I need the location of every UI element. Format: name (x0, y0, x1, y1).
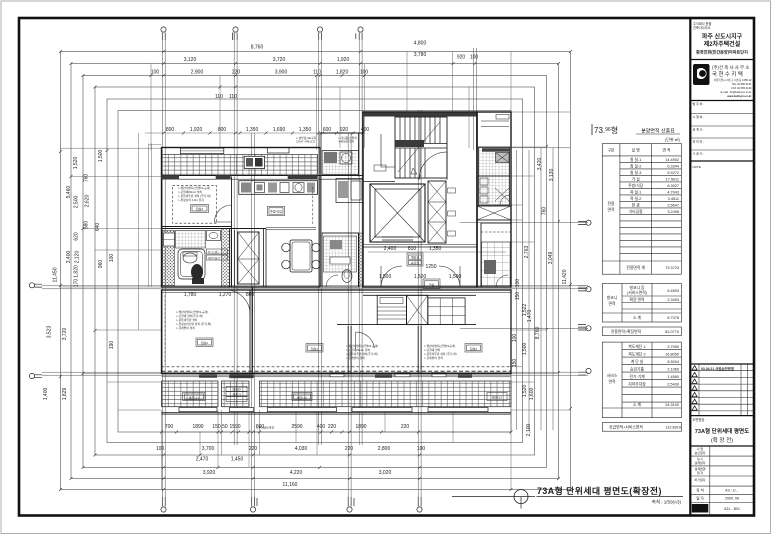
dashed vertical mid (312, 187, 314, 224)
svg-text:100: 100 (515, 279, 521, 288)
svg-text:03.04.21 사업승인변경: 03.04.21 사업승인변경 (701, 366, 734, 371)
svg-text:3,523: 3,523 (47, 326, 53, 339)
kitchen counter row (239, 181, 318, 195)
bottom rooms band (162, 290, 512, 374)
utility mid (336, 179, 363, 203)
svg-text:6.4593: 6.4593 (667, 289, 679, 293)
utility top right (322, 151, 359, 175)
svg-text:100: 100 (512, 334, 518, 343)
label bath (207, 249, 228, 260)
svg-text:승강기홀: 승강기홀 (630, 367, 644, 372)
label bedroom2 (196, 338, 213, 347)
svg-text:구분: 구분 (608, 148, 615, 153)
svg-text:축 척: 축 척 (696, 488, 704, 493)
stakeholder rows (690, 114, 754, 151)
svg-text:1890: 1890 (355, 424, 366, 430)
svg-text:11,420: 11,420 (562, 269, 568, 284)
bedroom3 dashed expansion (173, 186, 217, 224)
svg-text:서울특별시 서초구 서초동 1358-12: 서울특별시 서초구 서초동 1358-12 (714, 78, 752, 82)
svg-text:1,780: 1,780 (184, 292, 197, 298)
svg-text:220: 220 (345, 446, 354, 452)
svg-text:3,420: 3,420 (537, 158, 543, 171)
notes kitchen top (296, 136, 357, 144)
projection lines left block (149, 144, 162, 288)
svg-text:1890: 1890 (192, 424, 203, 430)
svg-text:(단위:㎡): (단위:㎡) (665, 136, 681, 142)
svg-text:기타공용: 기타공용 (629, 209, 643, 214)
svg-text:공급면적+서비스면적: 공급면적+서비스면적 (609, 425, 643, 430)
stair treads lower (400, 148, 425, 178)
grid line V1 (162, 40, 165, 497)
svg-text:620: 620 (74, 232, 80, 241)
bedroom walls vertical (250, 287, 253, 374)
svg-text:1250: 1250 (425, 264, 436, 270)
core corridor bottom wall (363, 246, 477, 248)
right wing bath lower (479, 176, 510, 205)
svg-text:주방/식당: 주방/식당 (628, 183, 644, 188)
svg-text:발코니3: 발코니3 (492, 395, 502, 400)
svg-text:760: 760 (84, 174, 90, 183)
svg-text:1.4560: 1.4560 (667, 375, 679, 379)
svg-text:100: 100 (360, 70, 369, 76)
stove box on counter (244, 156, 264, 168)
svg-text:침 실-2: 침 실-2 (630, 164, 641, 169)
corridor door arcs (381, 266, 402, 287)
svg-text:승강장: 승강장 (411, 260, 420, 265)
svg-text:파주 신도시지구: 파주 신도시지구 (702, 33, 743, 41)
svg-text:960: 960 (98, 260, 104, 269)
right extension lines (511, 112, 570, 410)
bedroom3 door arc (215, 205, 232, 222)
bubble bottom 2 (250, 497, 257, 512)
chain rect 3 (83, 76, 547, 468)
svg-text:8.5004: 8.5004 (667, 360, 679, 364)
table1 header text (594, 126, 681, 142)
svg-text:5,460: 5,460 (66, 186, 72, 199)
svg-text:3,900: 3,900 (275, 70, 288, 76)
svg-text:800: 800 (218, 127, 227, 133)
svg-text:분양면적 산출표: 분양면적 산출표 (641, 128, 675, 135)
svg-text:세면기설치: 세면기설치 (208, 256, 220, 260)
svg-text:2.5430: 2.5430 (667, 383, 679, 387)
entry door arc (419, 152, 447, 180)
svg-text:침실2: 침실2 (201, 340, 209, 345)
svg-text:2.3493: 2.3493 (667, 298, 679, 302)
svg-text:3,720: 3,720 (62, 328, 68, 341)
svg-text:1,350: 1,350 (246, 127, 259, 133)
svg-text:3,120: 3,120 (184, 57, 197, 63)
bottom extension lines (162, 410, 512, 489)
bubble right 1 (578, 220, 591, 225)
svg-text:1,270: 1,270 (219, 292, 232, 298)
svg-text:2,100: 2,100 (526, 424, 532, 437)
svg-text:11,450: 11,450 (53, 267, 59, 282)
stair treads upper (400, 117, 440, 143)
table3 (602, 342, 681, 431)
svg-text:욕 실-1: 욕 실-1 (630, 190, 641, 195)
stairs room (395, 117, 447, 178)
svg-text:100: 100 (156, 446, 165, 452)
svg-text:건축사사무소: 건축사사무소 (693, 25, 711, 30)
svg-text:소 계: 소 계 (633, 402, 642, 407)
right duct X (477, 206, 511, 220)
svg-text:3,720: 3,720 (273, 57, 286, 63)
label stair hall (407, 253, 423, 266)
stair landing (395, 144, 447, 149)
svg-text:17.5911: 17.5911 (666, 178, 679, 182)
grid line V5 (252, 133, 255, 497)
bubble top 4 (356, 27, 363, 40)
chain rect 5 (107, 99, 523, 443)
closet right (428, 298, 465, 325)
bottom wall above balcony (162, 373, 512, 375)
svg-text:발 주 처 :: 발 주 처 : (693, 101, 705, 106)
bathroom block (162, 229, 232, 288)
svg-text:실외기: 실외기 (232, 392, 241, 397)
svg-text:400: 400 (317, 424, 326, 430)
svg-text:면적: 면적 (608, 207, 615, 212)
bubble right 2 (578, 286, 591, 292)
svg-text:ㄴ걸레받이 설치: ㄴ걸레받이 설치 (346, 356, 365, 360)
svg-text:16.8050: 16.8050 (665, 353, 679, 357)
grid line V2 (234, 40, 237, 445)
bubble right 3 (578, 325, 591, 331)
svg-text:일 자: 일 자 (696, 496, 704, 501)
svg-text:1,520: 1,520 (73, 157, 79, 170)
svg-text:920: 920 (340, 127, 349, 133)
svg-text:www.kukhyun.co.kr: www.kukhyun.co.kr (727, 94, 751, 98)
svg-text:100: 100 (417, 446, 426, 452)
svg-text:소 계: 소 계 (633, 315, 642, 320)
wall x266 (264, 229, 267, 288)
svg-text:1,500: 1,500 (98, 150, 104, 163)
svg-text:전기·기계: 전기·기계 (629, 374, 645, 379)
svg-text:면 적: 면 적 (662, 148, 671, 153)
svg-text:6.3344: 6.3344 (667, 165, 679, 169)
svg-text:욕 실-2: 욕 실-2 (630, 196, 641, 201)
top extension lines (151, 52, 511, 151)
grid line H1 (42, 286, 588, 289)
section lines (690, 60, 754, 447)
svg-text:110: 110 (229, 94, 237, 100)
label bedroom3 (191, 205, 209, 213)
balcony top strip hatch (162, 155, 318, 176)
svg-text:A3 : 1/...: A3 : 1/... (725, 489, 738, 493)
svg-text:1,920: 1,920 (337, 57, 350, 63)
notes mid lower (346, 344, 378, 360)
svg-text:발코니: 발코니 (607, 295, 617, 300)
svg-text:8.7078: 8.7078 (667, 316, 679, 320)
dashed expansion bedroom2 (164, 295, 166, 365)
svg-text:설계일자: 설계일자 (694, 460, 705, 465)
svg-text:24.3100: 24.3100 (665, 403, 679, 407)
bathroom top wall (162, 227, 267, 229)
closet left (377, 295, 406, 324)
svg-text:지하주차장: 지하주차장 (628, 382, 646, 387)
svg-text:4,800: 4,800 (414, 41, 427, 47)
entry band walls (337, 295, 476, 324)
washstand (207, 231, 221, 241)
architect logo (693, 64, 710, 85)
elevator shaft (370, 184, 425, 242)
svg-text:2590: 2590 (291, 424, 302, 430)
svg-text:2,620: 2,620 (85, 195, 91, 208)
svg-text:2,500: 2,500 (74, 196, 80, 209)
svg-text:73A형 단위세대 평면도(확장전): 73A형 단위세대 평면도(확장전) (537, 485, 662, 496)
svg-text:2,800: 2,800 (378, 446, 391, 452)
svg-text:환경친화(민간분양)아파트단지: 환경친화(민간분양)아파트단지 (696, 49, 748, 55)
label kitchen (268, 206, 285, 215)
left block outline (162, 148, 321, 288)
svg-text:ㄴ걸레받이 설치: ㄴ걸레받이 설치 (176, 326, 195, 330)
svg-text:발코니 등: 발코니 등 (629, 285, 645, 290)
svg-text:3,780: 3,780 (414, 52, 427, 58)
label ac unit (226, 387, 247, 402)
svg-text:700: 700 (165, 424, 174, 430)
bubble right 4 (578, 368, 591, 375)
svg-text:3,700: 3,700 (202, 446, 215, 452)
svg-text:150: 150 (512, 359, 518, 368)
svg-text:A31 - B01: A31 - B01 (724, 507, 740, 511)
svg-text:150: 150 (515, 292, 521, 301)
svg-text:1,820: 1,820 (74, 265, 80, 278)
svg-text:220: 220 (401, 424, 410, 430)
bubble top 1 (161, 27, 166, 40)
svg-text:73.3723: 73.3723 (665, 266, 679, 270)
svg-text:국 현 수 키 텍: 국 현 수 키 텍 (712, 70, 743, 78)
dimension texts bottom (156, 446, 426, 488)
dimension texts left (rotated) (43, 150, 115, 401)
right wing bath upper (479, 147, 510, 176)
table2 (602, 284, 681, 336)
grid line V4 (359, 40, 362, 445)
extra right dim columns (517, 148, 554, 430)
svg-text:확장 면적: 확장 면적 (629, 297, 645, 302)
svg-text:주방/식당: 주방/식당 (270, 209, 282, 214)
svg-text:거 실: 거 실 (632, 177, 641, 182)
svg-text:발코니1: 발코니1 (189, 395, 199, 400)
label balcony right (487, 393, 507, 401)
bedroom2 door arc (226, 290, 250, 314)
svg-text:3.7050: 3.7050 (667, 345, 679, 349)
label room right (465, 344, 482, 353)
svg-text:6.3927: 6.3927 (667, 184, 679, 188)
svg-text:구획내선 설치: 구획내선 설치 (338, 140, 355, 144)
AD tags (448, 188, 456, 193)
svg-text:11,160: 11,160 (283, 482, 298, 488)
svg-text:일 자: 일 자 (697, 470, 704, 475)
notes left lower (176, 310, 211, 330)
svg-text:150,50: 150,50 (212, 424, 228, 430)
svg-text:3,920: 3,920 (203, 470, 216, 476)
svg-text:침실1: 침실1 (311, 346, 319, 351)
svg-text:면적: 면적 (609, 301, 616, 306)
table1 (602, 144, 681, 275)
svg-text:복도계단 1: 복도계단 1 (628, 344, 645, 349)
svg-text:전용: 전용 (608, 201, 615, 206)
svg-text:1,500: 1,500 (522, 343, 528, 356)
svg-text:1,500: 1,500 (449, 274, 462, 280)
grid line H3 (460, 222, 588, 224)
svg-text:허가일자: 허가일자 (694, 477, 705, 482)
svg-text:전용면적+확장면적: 전용면적+확장면적 (611, 329, 642, 334)
svg-text:2.6647: 2.6647 (667, 204, 679, 208)
svg-text:14.4902: 14.4902 (665, 158, 679, 162)
svg-text:5.5272: 5.5272 (667, 171, 679, 175)
bubble bottom 3 (347, 497, 354, 512)
svg-text:1590: 1590 (229, 424, 240, 430)
left extension lines (61, 148, 162, 410)
bathroom 2 (322, 233, 359, 287)
svg-text:계단실: 계단실 (411, 255, 420, 260)
svg-text:1,470: 1,470 (527, 310, 533, 323)
svg-text:거실: 거실 (429, 282, 435, 287)
svg-text:1,820: 1,820 (336, 70, 349, 76)
svg-text:설 계 사 :: 설 계 사 : (693, 127, 705, 132)
info rows (690, 446, 754, 516)
svg-text:1,350: 1,350 (299, 127, 312, 133)
svg-text:침실3: 침실3 (196, 206, 204, 211)
svg-text:제2차주택건설: 제2차주택건설 (704, 40, 741, 48)
stair direction line (398, 122, 440, 174)
grid line V8 (474, 48, 477, 150)
svg-text:8,760: 8,760 (251, 45, 264, 51)
chain rect 2 (71, 64, 559, 479)
grid line V3 (319, 40, 322, 445)
svg-text:220: 220 (249, 446, 258, 452)
svg-text:TEL 02.585.3131: TEL 02.585.3131 (732, 82, 752, 86)
svg-text:2,120: 2,120 (75, 251, 81, 264)
svg-text:에어컨: 에어컨 (232, 387, 241, 392)
svg-text:시 공 사 :: 시 공 사 : (693, 151, 705, 156)
svg-text:4.7043: 4.7043 (667, 191, 679, 195)
svg-text:침실2: 침실2 (470, 346, 478, 351)
svg-text:2,900: 2,900 (191, 70, 204, 76)
svg-text:FAX 02.585.3139: FAX 02.585.3139 (731, 86, 752, 90)
svg-text:73A형 단위세대 평면도: 73A형 단위세대 평면도 (695, 427, 750, 435)
svg-text:1,920: 1,920 (190, 127, 203, 133)
entry duct X (407, 295, 428, 324)
chain rect 6 (118, 111, 511, 433)
chain rect 4 (95, 87, 535, 455)
svg-text:4,030: 4,030 (295, 446, 308, 452)
svg-text:2009. 06: 2009. 06 (725, 497, 739, 501)
svg-text:ㄴ천정높이 2,3m 유지: ㄴ천정높이 2,3m 유지 (178, 198, 204, 202)
svg-text:110: 110 (215, 94, 223, 100)
svg-text:1,450: 1,450 (231, 457, 244, 463)
core block outline (363, 112, 477, 287)
svg-text:3,020: 3,020 (379, 470, 392, 476)
svg-text:190: 190 (109, 341, 115, 350)
bubble left 1 (29, 283, 42, 288)
svg-text:3.2498: 3.2498 (667, 210, 679, 214)
lower window sills (179, 408, 217, 412)
bubble left 2 (29, 373, 42, 378)
dimension texts right (rotated) (512, 158, 568, 437)
label balcony mid (292, 393, 312, 401)
svg-text:ㄴ무늬코트마감: ㄴ무늬코트마감 (256, 426, 274, 430)
svg-text:승인일자: 승인일자 (694, 450, 705, 455)
svg-text:침 실-1: 침 실-1 (630, 157, 641, 162)
bedroom3 right wall (230, 177, 232, 288)
kitchen zone top walls (320, 133, 363, 177)
svg-text:100: 100 (109, 254, 115, 263)
svg-text:100: 100 (470, 55, 479, 61)
svg-text:1,829: 1,829 (62, 388, 68, 401)
right wing outline (477, 112, 511, 287)
svg-text:COAT 구획 (LT): COAT 구획 (LT) (296, 140, 315, 144)
svg-text:600: 600 (323, 127, 332, 133)
svg-text:1,600: 1,600 (529, 388, 535, 401)
svg-text:NOTE: NOTE (693, 165, 701, 169)
svg-text:복도계단 2: 복도계단 2 (628, 352, 645, 357)
svg-text:실 명: 실 명 (632, 148, 641, 153)
svg-text:3,049: 3,049 (548, 252, 554, 265)
stair hall inner line (381, 134, 395, 167)
svg-text:(서비스면적): (서비스면적) (627, 290, 648, 295)
svg-text:1,690: 1,690 (273, 127, 286, 133)
svg-text:4,220: 4,220 (290, 470, 303, 476)
bubble bottom 1 (161, 497, 166, 512)
wall x320 lower (319, 229, 321, 288)
svg-text:현 관: 현 관 (632, 203, 641, 208)
right lower room (481, 223, 511, 287)
svg-text:760: 760 (542, 207, 548, 216)
svg-text:580: 580 (84, 221, 90, 230)
svg-text:도면명칭 :: 도면명칭 : (693, 417, 707, 422)
bubble top 3 (317, 27, 322, 40)
svg-text:220: 220 (328, 424, 337, 430)
svg-text:3.4511: 3.4511 (668, 197, 679, 201)
svg-text:3,400: 3,400 (66, 251, 72, 264)
svg-text:8,760: 8,760 (535, 327, 541, 340)
svg-text:감 리 단 :: 감 리 단 : (693, 139, 705, 144)
notes right lower (424, 344, 457, 360)
bathtub (178, 249, 205, 279)
bubble top 2 (233, 27, 239, 40)
room door arc right (356, 332, 375, 348)
svg-text:3,120: 3,120 (549, 169, 555, 182)
dining set (290, 240, 312, 272)
svg-text:계 단 실: 계 단 실 (631, 359, 644, 364)
label room mid (306, 344, 323, 353)
label balcony left (183, 393, 205, 401)
expansion dashed line (162, 366, 512, 368)
svg-text:면적: 면적 (609, 379, 616, 384)
label living (423, 279, 440, 288)
svg-text:E-mail : kh@kukhyun.co.kr: E-mail : kh@kukhyun.co.kr (721, 90, 752, 94)
wall under balcony with dark segments (162, 175, 364, 177)
svg-text:(확 장 전): (확 장 전) (711, 436, 733, 444)
grid line V6 (348, 133, 351, 497)
svg-text:서비스: 서비스 (607, 373, 618, 378)
svg-text:2.1060: 2.1060 (667, 368, 679, 372)
svg-text:1,520: 1,520 (522, 385, 528, 398)
toilet (191, 264, 203, 280)
bottom balcony strips (162, 381, 219, 407)
ducts center X (238, 232, 259, 284)
chain rect 1 (61, 52, 571, 490)
upper window sills on wall (330, 373, 344, 377)
svg-text:112.8919: 112.8919 (665, 426, 681, 430)
svg-text:전용면적 계: 전용면적 계 (626, 265, 645, 270)
svg-text:발코니2: 발코니2 (297, 395, 307, 400)
svg-text:2,763: 2,763 (524, 246, 530, 259)
svg-text:(주)건 축 사 사 무 소: (주)건 축 사 사 무 소 (712, 64, 749, 71)
svg-text:ㄴ걸레받이 설치: ㄴ걸레받이 설치 (424, 356, 443, 360)
title bubble (514, 490, 528, 504)
window sill rects top (180, 148, 223, 153)
